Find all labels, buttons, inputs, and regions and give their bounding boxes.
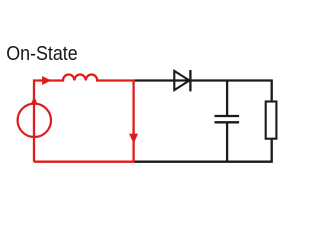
arrow: inductor current (right) [42, 76, 51, 85]
wire: black top segment with right vertical down to load [135, 81, 272, 102]
arrow: source direction (up) [31, 96, 38, 104]
capacitor C1 bottom lead [226, 123, 228, 162]
wire: red input loop (left vertical, top segment with inductor, bottom segment) [34, 75, 135, 162]
diode D1 triangle [174, 71, 189, 90]
wire: red bottom segment [34, 161, 135, 163]
load R1 (rectangle) [266, 102, 277, 139]
capacitor C1 top plate [215, 115, 240, 117]
arrow: switch current (down) [129, 134, 138, 144]
wire: black right vertical below load and bottom segment [135, 139, 272, 162]
capacitor C1 bottom plate [215, 121, 240, 123]
source V1 (circle) [18, 104, 51, 137]
wire: red switch branch (middle vertical) [132, 81, 134, 162]
diode D1 cathode bar [189, 70, 191, 91]
capacitor C1 top lead [226, 81, 228, 116]
svg-text:On-State: On-State [6, 43, 78, 65]
